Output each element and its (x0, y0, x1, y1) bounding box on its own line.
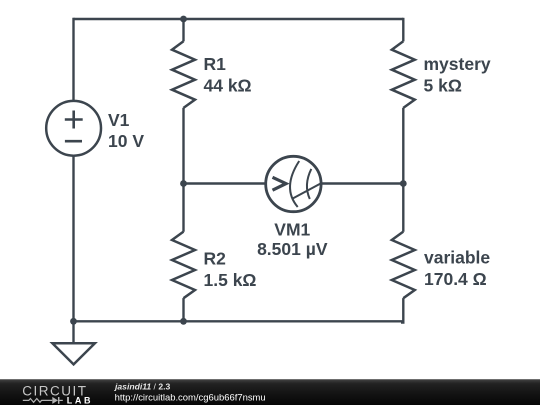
wire middle branch mid (182, 108, 184, 232)
wire top rail (74, 18, 404, 20)
voltage source V1 (46, 101, 101, 156)
wire right branch mid (402, 108, 404, 232)
resistor variable (392, 232, 415, 299)
svg-text:R2: R2 (204, 249, 227, 269)
wire right branch bottom lead (401, 298, 403, 322)
resistor R2 (172, 232, 195, 299)
node bottom-middle junction (180, 318, 187, 325)
node top junction (180, 16, 187, 23)
logo resistor-diode squiggle (23, 397, 63, 404)
wire left branch lower (72, 155, 74, 321)
svg-text:R1: R1 (204, 54, 227, 74)
node middle-left junction (180, 180, 187, 187)
wire right branch top lead (402, 18, 404, 42)
wire bottom rail (74, 320, 404, 322)
svg-text:5 kΩ: 5 kΩ (424, 76, 462, 96)
resistor R1 (172, 41, 195, 108)
wire middle branch bottom lead (182, 298, 184, 321)
svg-text:variable: variable (424, 248, 490, 268)
wire bridge left (184, 182, 266, 184)
svg-text:http://circuitlab.com/cg6ub66f: http://circuitlab.com/cg6ub66f7nsmu (115, 392, 266, 403)
svg-text:8.501 µV: 8.501 µV (257, 239, 328, 259)
node ground junction (70, 318, 77, 325)
ground (52, 321, 95, 364)
svg-text:V1: V1 (108, 110, 130, 130)
svg-text:170.4 Ω: 170.4 Ω (424, 269, 487, 289)
resistor mystery (392, 41, 415, 108)
voltmeter VM1 (266, 156, 322, 211)
svg-text:jasindi11 / 2.3: jasindi11 / 2.3 (114, 382, 170, 392)
svg-text:VM1: VM1 (274, 219, 310, 239)
wire middle branch top lead (182, 19, 184, 41)
svg-text:mystery: mystery (424, 54, 491, 74)
svg-text:1.5 kΩ: 1.5 kΩ (204, 270, 257, 290)
footer bar (0, 379, 540, 405)
svg-text:LAB: LAB (67, 395, 93, 405)
svg-text:44 kΩ: 44 kΩ (204, 76, 252, 96)
svg-text:10 V: 10 V (108, 131, 144, 151)
wire bridge right (321, 182, 403, 184)
wire left branch upper (72, 18, 74, 101)
node middle-right junction (400, 180, 407, 187)
